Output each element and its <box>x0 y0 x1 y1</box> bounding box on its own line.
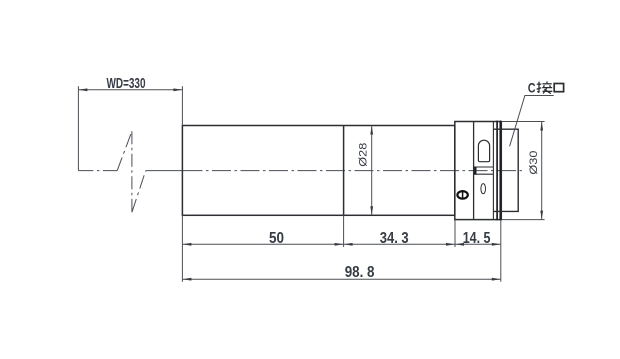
dimension 34.3 <box>344 220 455 247</box>
glyph 口 <box>554 84 563 92</box>
svg-text:98. 8: 98. 8 <box>345 264 375 281</box>
centerline optical axis through body <box>184 170 523 172</box>
groove dark end <box>474 167 476 175</box>
dimension Phi28 <box>371 126 373 216</box>
flange divider <box>473 122 475 220</box>
svg-text:34. 3: 34. 3 <box>380 230 409 247</box>
thick ring line 2 <box>499 121 501 221</box>
body section divider <box>343 126 345 216</box>
slotted set screw <box>457 191 467 200</box>
dimension WD=330 <box>78 86 182 170</box>
svg-text:14. 5: 14. 5 <box>463 230 491 247</box>
dimension Phi30 <box>502 122 545 220</box>
leader line C interface <box>510 96 554 147</box>
svg-text:Ø30: Ø30 <box>528 151 540 175</box>
dimension 14.5 <box>455 220 501 281</box>
svg-text:WD=330: WD=330 <box>107 76 146 92</box>
arch window on flange <box>478 140 489 162</box>
svg-text:C: C <box>528 80 536 96</box>
lens body Phi28 outline <box>182 126 454 216</box>
svg-text:Ø28: Ø28 <box>357 143 369 167</box>
small oval detail <box>481 184 486 194</box>
C-mount thread cylinder <box>493 129 518 211</box>
groove slot at centerline <box>474 167 494 174</box>
dimension 50 <box>182 215 343 281</box>
svg-text:50: 50 <box>269 230 284 247</box>
thick ring line 1 <box>496 121 498 221</box>
centerline optical axis left segment <box>78 170 183 172</box>
ring line thin <box>492 122 494 220</box>
flange block Phi30 <box>455 122 502 220</box>
break symbol zigzag <box>117 131 146 212</box>
dimension 98.8 <box>182 278 500 280</box>
glyph 接 <box>537 81 553 93</box>
